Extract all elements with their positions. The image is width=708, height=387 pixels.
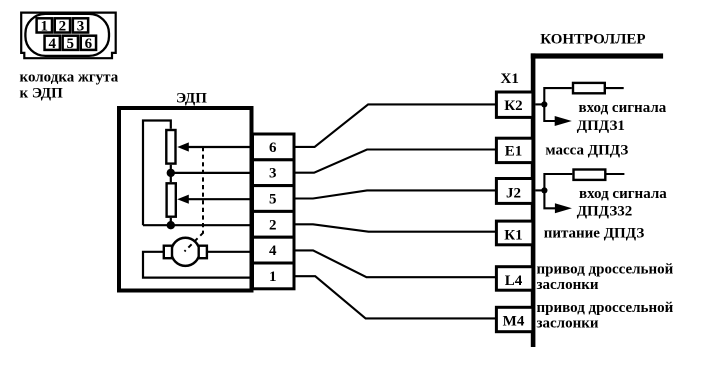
wire J2 node up to resistor [544, 174, 572, 190]
dashed mechanical link vertical [202, 147, 204, 233]
connector stadium body [25, 14, 109, 56]
motor left brush [164, 246, 172, 259]
controller pin box J2 [496, 179, 533, 204]
svg-text:ДПДЗ1: ДПДЗ1 [577, 118, 625, 134]
svg-text:X1: X1 [501, 71, 519, 87]
svg-text:колодка жгута: колодка жгута [20, 69, 119, 85]
wire pin 3 to E1 [294, 150, 496, 173]
wiper arrow of track 2 to pin 5 [177, 195, 253, 204]
EDP pin box 4 [253, 237, 295, 263]
svg-text:4: 4 [269, 243, 277, 259]
connector pin cell 1 [37, 18, 52, 34]
controller pin box L4 [496, 267, 533, 291]
wire K2 node down to arrow [544, 104, 555, 121]
resistor R2 potentiometer track 2 [167, 183, 176, 216]
svg-text:КОНТРОЛЛЕР: КОНТРОЛЛЕР [540, 31, 645, 47]
motor M circle [171, 238, 199, 266]
dashed mechanical link diagonal into motor [185, 232, 204, 251]
svg-text:1: 1 [41, 19, 49, 35]
controller pin box M4 [496, 307, 533, 331]
EDP pin box 1 [253, 263, 295, 289]
node J2 junction dot [541, 187, 547, 193]
svg-text:5: 5 [67, 36, 75, 52]
svg-text:ДПДЗ32: ДПДЗ32 [577, 203, 633, 219]
svg-text:вход сигнала: вход сигнала [579, 100, 667, 116]
svg-text:Е1: Е1 [505, 144, 523, 160]
controller top bar [531, 53, 663, 58]
wire J2 resistor right lead [606, 173, 624, 175]
svg-text:6: 6 [269, 140, 277, 156]
wire pin 5 to J2 [294, 190, 496, 198]
svg-text:К1: К1 [504, 227, 522, 243]
controller pin box K2 [496, 92, 533, 117]
resistor R1 potentiometer track 1 [166, 130, 175, 164]
svg-text:заслонки: заслонки [537, 316, 599, 332]
svg-text:1: 1 [269, 269, 277, 285]
controller left bar [531, 53, 536, 347]
connector pin cell 4 [45, 36, 60, 53]
svg-text:вход сигнала: вход сигнала [579, 186, 667, 202]
svg-text:J2: J2 [506, 185, 521, 201]
connector pin cell 3 [73, 18, 88, 34]
wire K2 to internal node [535, 103, 544, 105]
svg-text:питание ДПДЗ: питание ДПДЗ [544, 225, 645, 241]
controller pin box K1 [496, 221, 533, 245]
connector pin cell 6 [81, 36, 96, 53]
wire R1 bottom to node [170, 165, 172, 173]
svg-text:3: 3 [77, 19, 85, 35]
wire bottom rail to pin 2 [143, 224, 253, 226]
controller pin box E1 [496, 138, 533, 162]
wire J2 to internal node [535, 189, 544, 191]
motor right brush [199, 246, 207, 259]
svg-text:3: 3 [269, 166, 277, 182]
resistor J2 input [574, 170, 606, 180]
wire node to R2 top [170, 173, 172, 182]
EDP pin box 2 [253, 211, 295, 237]
wire node to pin 3 [171, 172, 253, 174]
EDP pin box 6 [253, 134, 295, 160]
wiper arrow of track 1 to pin 6 [177, 142, 253, 151]
svg-text:ЭДП: ЭДП [176, 90, 207, 106]
svg-text:К2: К2 [504, 98, 522, 114]
connector pin cell 5 [63, 36, 78, 53]
node junction dot between tracks [167, 169, 175, 177]
wire left rail loop inside EDP [143, 121, 171, 226]
svg-text:2: 2 [269, 217, 277, 233]
svg-text:М4: М4 [503, 314, 525, 330]
arrow J2 signal direction [555, 203, 572, 213]
arrow K2 signal direction [555, 116, 572, 126]
wire K2 resistor right lead [606, 87, 624, 89]
svg-text:к ЭДП: к ЭДП [20, 85, 64, 101]
wire pin 1 to M4 [294, 276, 496, 318]
wire R2 bottom to bottom node [170, 218, 172, 225]
resistor K2 input [573, 83, 605, 93]
connector X1 harness block outline [21, 13, 116, 59]
svg-text:2: 2 [59, 19, 67, 35]
wire J2 node down to arrow [544, 190, 555, 208]
svg-text:привод дроссельной: привод дроссельной [537, 300, 674, 316]
wire pin 2 to K1 [294, 224, 496, 231]
svg-text:4: 4 [48, 36, 56, 52]
connector pin cell 2 [55, 18, 70, 34]
node bottom junction dot [167, 221, 175, 229]
svg-text:заслонки: заслонки [537, 277, 599, 293]
wire pin 4 to L4 [294, 250, 496, 277]
EDP block outline [119, 108, 252, 291]
svg-text:5: 5 [269, 192, 277, 208]
EDP pin box 5 [253, 186, 295, 212]
svg-text:L4: L4 [505, 273, 523, 289]
wire K2 node up to resistor [544, 88, 572, 104]
svg-text:6: 6 [85, 36, 93, 52]
svg-text:масса ДПДЗ: масса ДПДЗ [545, 142, 628, 158]
EDP pin box 3 [253, 160, 295, 186]
wire motor left to pin 1 [143, 252, 253, 278]
svg-text:привод дроссельной: привод дроссельной [537, 262, 674, 278]
node K2 junction dot [541, 101, 547, 107]
wire pin 6 to K2 [294, 104, 496, 146]
wire motor right to pin 4 [207, 251, 253, 253]
